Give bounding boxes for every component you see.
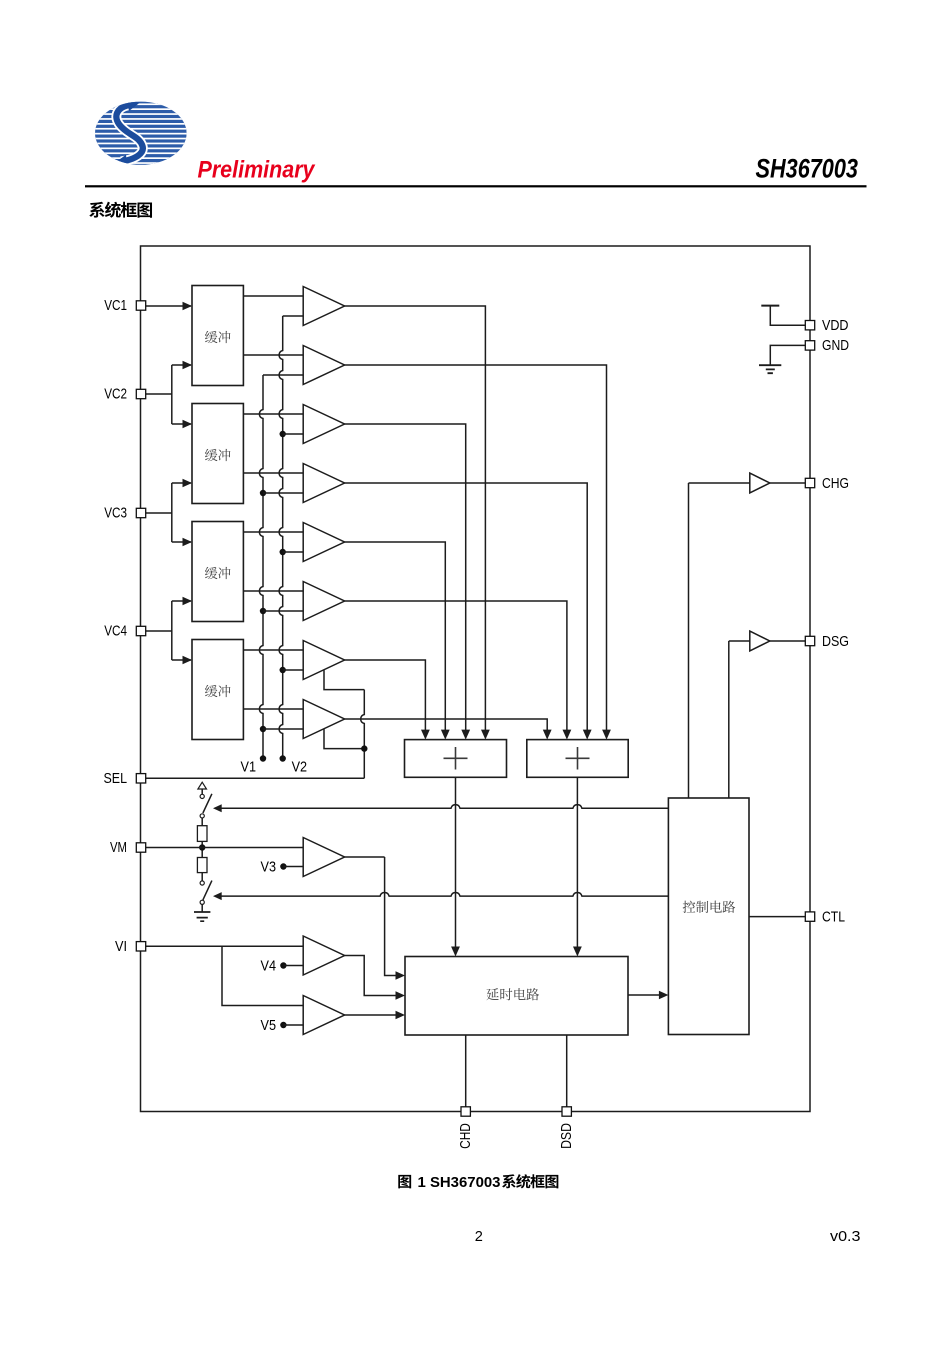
wire A8 feedback tap bbox=[324, 729, 364, 749]
wire V1 to A8 lower input bbox=[263, 728, 303, 730]
wire S1 output to delay bbox=[455, 777, 457, 947]
arrow control SW1 bbox=[213, 804, 222, 812]
arrow A3 into summation box bbox=[461, 730, 470, 740]
summation box S1 bbox=[405, 740, 507, 778]
buffer U2 缓冲 box bbox=[192, 404, 243, 504]
node V2 terminal dot bbox=[280, 755, 286, 761]
arrow into U1 pin1 bbox=[183, 302, 193, 310]
svg-text:CHG: CHG bbox=[822, 476, 849, 492]
wire V2 to A7 lower input bbox=[283, 669, 304, 671]
switch SW1 stem bbox=[201, 789, 203, 794]
pin SEL bbox=[136, 774, 145, 783]
wire CHG into buffer bbox=[689, 482, 750, 484]
op-amp A2 bbox=[303, 346, 344, 385]
arrow V3 into delay bbox=[396, 971, 406, 979]
summation S1 plus sign bbox=[444, 747, 468, 770]
wire U3 output to A6 upper input bbox=[243, 590, 303, 592]
wire V3 output drop bbox=[385, 857, 397, 976]
buffer U4 缓冲 box bbox=[192, 640, 243, 740]
svg-text:GND: GND bbox=[822, 338, 849, 354]
wire V4 dot to amp bbox=[283, 965, 303, 967]
svg-text:1 SH367003: 1 SH367003 bbox=[418, 1175, 501, 1191]
svg-text:SEL: SEL bbox=[104, 771, 128, 787]
svg-text:CTL: CTL bbox=[822, 909, 845, 925]
arrow S1 into delay box bbox=[451, 947, 460, 957]
svg-text:VC4: VC4 bbox=[104, 624, 127, 640]
pin GND bbox=[805, 341, 814, 350]
arrow A6 into summation box bbox=[563, 730, 572, 740]
buffer U1 缓冲 box bbox=[192, 286, 243, 386]
resistor R1 bbox=[197, 826, 207, 842]
buffer amp CHG bbox=[750, 473, 770, 493]
bus V1 top corner to A2 lower input bbox=[263, 374, 303, 376]
header rule bbox=[85, 185, 867, 187]
wire VC2 stub bbox=[145, 393, 172, 395]
wire riser to U3 input2 bbox=[172, 600, 191, 602]
junction dot V2 A5 bbox=[280, 549, 286, 555]
resistor R2 bbox=[197, 858, 207, 873]
arrow V5 into delay bbox=[396, 1011, 406, 1019]
wire riser to U2 input2 bbox=[172, 482, 191, 484]
delay circuit label 延时电路 bbox=[486, 988, 498, 1000]
wire CHG buffer to pin bbox=[770, 482, 806, 484]
pin VI bbox=[136, 942, 145, 951]
svg-text:V1: V1 bbox=[241, 760, 257, 776]
pin VC4 bbox=[136, 626, 145, 635]
switch SW2 bottom contact bbox=[200, 900, 204, 904]
junction dot V1 A4 bbox=[260, 490, 266, 496]
logo Sino Wealth bbox=[90, 101, 192, 166]
svg-text:DSD: DSD bbox=[559, 1123, 575, 1149]
wire V2 to A5 lower input bbox=[283, 551, 304, 553]
svg-text:V2: V2 bbox=[292, 760, 308, 776]
wire VDD pin to rail bbox=[770, 306, 805, 326]
wire DSG buffer to pin bbox=[770, 640, 806, 642]
arrow delay into control bbox=[659, 991, 669, 999]
wire U2 output to A4 upper input bbox=[243, 472, 303, 474]
svg-text:VC1: VC1 bbox=[104, 298, 127, 314]
arrow into U3 input2 bbox=[183, 597, 193, 605]
wire U4 output to A7 upper input bbox=[243, 649, 303, 651]
pin VC3 bbox=[136, 508, 145, 517]
wire A7 feedback tap bbox=[324, 670, 364, 690]
switch SW1 bottom contact bbox=[200, 814, 204, 818]
wire A7 output to summation bbox=[345, 660, 426, 731]
wire VI to V4 amp bbox=[145, 945, 303, 947]
riser VC4 bbox=[171, 601, 173, 660]
svg-text:V5: V5 bbox=[261, 1018, 277, 1034]
wire SW1 to R1 bbox=[201, 818, 203, 826]
pin DSD bbox=[562, 1107, 571, 1116]
wire U1 output to A1 upper input bbox=[243, 295, 303, 297]
bus V1 vertical bbox=[259, 375, 263, 759]
buffer U2 label 缓冲 bbox=[205, 449, 218, 461]
arrow A5 into summation box bbox=[441, 730, 450, 740]
buffer U1 label 缓冲 bbox=[205, 331, 218, 343]
op-amp V4 buffer bbox=[303, 936, 344, 975]
wire V5 output to delay bbox=[345, 1014, 397, 1016]
buffer U3 label 缓冲 bbox=[205, 567, 218, 579]
op-amp A7 bbox=[303, 641, 344, 680]
wire DSG vertical to control bbox=[728, 641, 730, 798]
wire U3 output to A5 upper input bbox=[243, 531, 303, 533]
wire V2 to A3 lower input bbox=[283, 433, 304, 435]
wire VM to V3 amp bbox=[145, 847, 303, 849]
arrow A7 into summation box bbox=[421, 730, 430, 740]
pin CHG bbox=[805, 478, 814, 487]
node V4 dot bbox=[280, 962, 286, 968]
svg-text:V4: V4 bbox=[261, 959, 277, 975]
svg-text:V3: V3 bbox=[261, 860, 277, 876]
svg-text:SH367003: SH367003 bbox=[756, 154, 859, 184]
wire GND pin to ground bbox=[770, 345, 805, 365]
junction dot V2 A3 bbox=[280, 431, 286, 437]
riser VC3 bbox=[171, 483, 173, 542]
node V5 dot bbox=[280, 1022, 286, 1028]
wire A1 output to summation bbox=[345, 306, 486, 731]
switch SW2 lever bbox=[203, 881, 212, 900]
svg-text:Preliminary: Preliminary bbox=[198, 157, 316, 184]
wire control to CTL pin bbox=[749, 916, 805, 918]
bus V2 top corner to A1 lower input bbox=[283, 315, 304, 317]
wire V3 dot to amp bbox=[283, 866, 303, 868]
arrow V4 into delay bbox=[396, 991, 406, 999]
op-amp A8 bbox=[303, 700, 344, 739]
wire U2 output to A3 upper input bbox=[243, 413, 303, 415]
caption 图 1 SH367003系统框图 bbox=[398, 1175, 411, 1189]
summation S2 plus sign bbox=[566, 747, 590, 770]
arrow A2 into summation box bbox=[602, 730, 611, 740]
wire riser to U3 input1 bbox=[172, 541, 191, 543]
arrow into U2 input1 bbox=[183, 420, 193, 428]
arrow S2 into delay box bbox=[573, 947, 582, 957]
wire S2 output to delay bbox=[576, 777, 578, 947]
wire U1 output to A2 upper input bbox=[243, 354, 303, 356]
svg-text:VDD: VDD bbox=[822, 318, 849, 334]
svg-text:DSG: DSG bbox=[822, 634, 849, 650]
pin VM bbox=[136, 843, 145, 852]
control circuit label 控制电路 bbox=[683, 901, 696, 913]
wire A4 output to summation bbox=[345, 483, 588, 731]
wire V4 output to delay bbox=[345, 956, 397, 996]
op-amp A5 bbox=[303, 523, 344, 562]
op-amp V5 buffer bbox=[303, 996, 344, 1035]
summation box S2 bbox=[527, 740, 628, 778]
wire VI branch to V5 bbox=[222, 946, 303, 1005]
wire A2 output to summation bbox=[345, 365, 607, 731]
op-amp A3 bbox=[303, 405, 344, 444]
ground symbol right bbox=[759, 365, 781, 373]
wire delay to DSD bbox=[566, 1035, 568, 1112]
wire A3 output to summation bbox=[345, 424, 466, 731]
arrow into U1 input2 bbox=[183, 361, 193, 369]
arrow into U4 input1 bbox=[183, 656, 193, 664]
heading 系统框图 bbox=[89, 202, 104, 218]
ground symbol left bbox=[194, 912, 210, 921]
riser VC2 bbox=[171, 365, 173, 424]
wire V3 output to delay bbox=[345, 856, 385, 858]
wire delay to control bbox=[628, 994, 660, 996]
pin VDD bbox=[805, 321, 814, 330]
control circuit box 控制电路 bbox=[668, 798, 749, 1035]
wire R2 to SW2 bbox=[201, 873, 203, 881]
node V1 terminal dot bbox=[260, 755, 266, 761]
svg-text:VI: VI bbox=[115, 939, 127, 955]
wire V1 to A4 lower input bbox=[263, 492, 303, 494]
wire A8 output to summation bbox=[345, 719, 548, 731]
wire VC4 stub bbox=[145, 630, 172, 632]
wire VC3 stub bbox=[145, 512, 172, 514]
junction dot VM bbox=[199, 844, 205, 850]
wire delay to CHD bbox=[465, 1035, 467, 1112]
junction dot V1 A6 bbox=[260, 608, 266, 614]
wire A6 output to summation bbox=[345, 601, 567, 731]
pin CHD bbox=[461, 1107, 470, 1116]
junction dot V2 A7 bbox=[280, 667, 286, 673]
control line to SW2 bbox=[221, 893, 668, 897]
buffer U3 缓冲 box bbox=[192, 522, 243, 622]
wire riser to U1 input2 bbox=[172, 364, 191, 366]
feedback vertical with jump bbox=[361, 690, 365, 779]
wire U4 output to A8 upper input bbox=[243, 708, 303, 710]
buffer amp DSG bbox=[750, 631, 770, 651]
arrow control SW2 bbox=[213, 892, 222, 900]
VDD power rail bar bbox=[761, 305, 779, 307]
pin CTL bbox=[805, 912, 814, 921]
buffer U4 label 缓冲 bbox=[205, 685, 218, 697]
junction dot feedback bbox=[361, 745, 367, 751]
op-amp A6 bbox=[303, 582, 344, 621]
control line to SW1 bbox=[221, 805, 668, 809]
delay circuit box 延时电路 bbox=[405, 957, 628, 1036]
switch SW1 lever bbox=[203, 794, 212, 813]
wire SW2 to ground bbox=[201, 904, 203, 912]
svg-text:VC3: VC3 bbox=[104, 506, 127, 522]
switch SW2 top contact bbox=[200, 881, 204, 885]
svg-text:VC2: VC2 bbox=[104, 387, 127, 403]
pin VC2 bbox=[136, 389, 145, 398]
svg-text:v0.3: v0.3 bbox=[830, 1229, 861, 1245]
wire V1 to A6 lower input bbox=[263, 610, 303, 612]
svg-text:CHD: CHD bbox=[458, 1123, 474, 1149]
switch SW1 up-arrow bbox=[198, 782, 207, 789]
switch SW1 top contact bbox=[200, 794, 204, 798]
wire riser to U4 input1 bbox=[172, 659, 191, 661]
arrow A4 into summation box bbox=[583, 730, 592, 740]
pin VC1 bbox=[136, 301, 145, 310]
wire DSG into buffer bbox=[729, 640, 750, 642]
diagram border bbox=[141, 246, 811, 1112]
op-amp V3 buffer bbox=[303, 838, 344, 877]
wire VC1 to U1 bbox=[145, 305, 191, 307]
wire A5 output to summation bbox=[345, 542, 446, 731]
svg-text:2: 2 bbox=[475, 1229, 483, 1245]
op-amp A1 bbox=[303, 287, 344, 326]
node V3 dot bbox=[280, 863, 286, 869]
arrow A8 into summation box bbox=[543, 730, 552, 740]
svg-text:VM: VM bbox=[110, 840, 127, 856]
wire CHG vertical to control bbox=[688, 483, 690, 798]
wire riser to U2 input1 bbox=[172, 423, 191, 425]
bus V2 vertical bbox=[279, 316, 283, 759]
wire R1 to VM node bbox=[201, 841, 203, 857]
wire V5 dot to amp bbox=[283, 1024, 303, 1026]
junction dot V1 A8 bbox=[260, 726, 266, 732]
op-amp A4 bbox=[303, 464, 344, 503]
wire SEL to feedback bbox=[145, 777, 364, 779]
pin DSG bbox=[805, 636, 814, 645]
arrow into U2 input2 bbox=[183, 479, 193, 487]
arrow into U3 input1 bbox=[183, 538, 193, 546]
arrow A1 into summation box bbox=[481, 730, 490, 740]
